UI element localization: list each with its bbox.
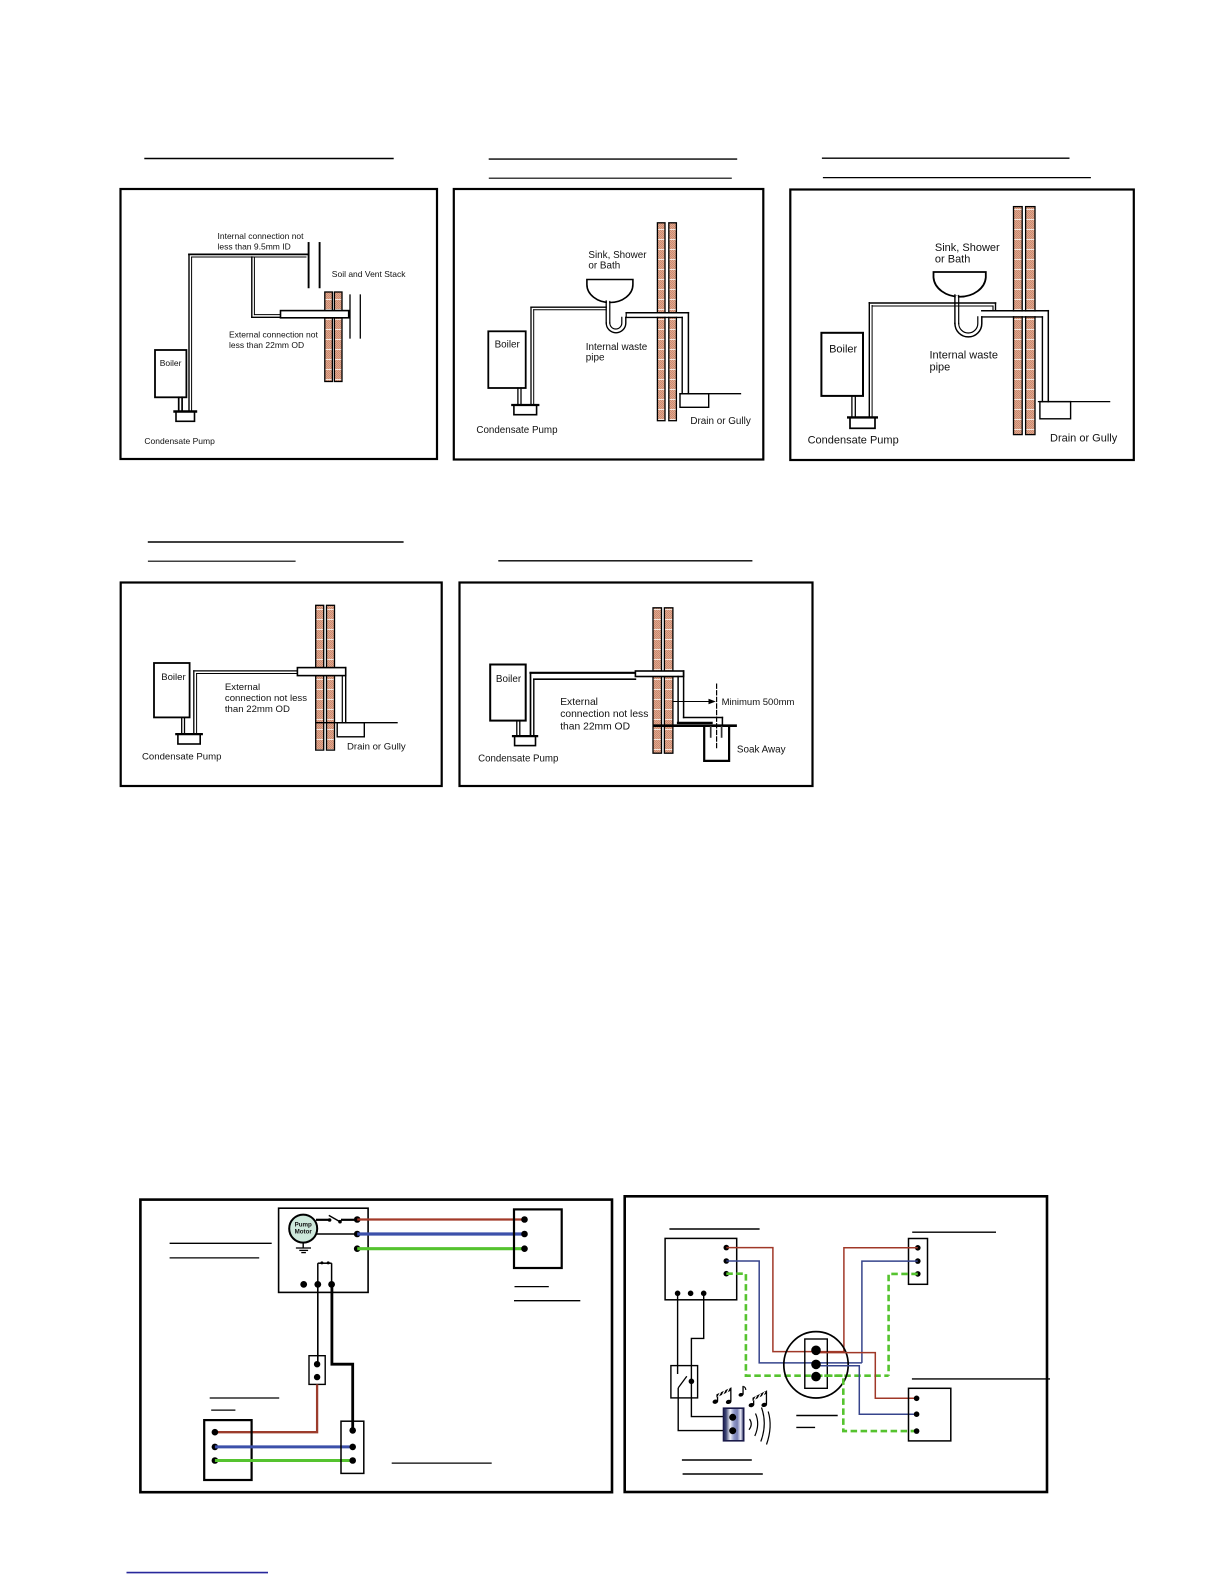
earth wire (green) <box>357 1247 524 1250</box>
wire switch to buzzer bottom <box>678 1388 731 1431</box>
condensate pump unit <box>850 417 875 428</box>
label line buzzer 2 <box>683 1473 763 1475</box>
terminal E <box>354 1245 361 1252</box>
diagram 1 border frame <box>121 189 438 459</box>
label line buzzer 1 <box>682 1459 752 1461</box>
svg-text:Condensate Pump: Condensate Pump <box>478 753 558 764</box>
label line supply top right <box>912 1231 996 1233</box>
wiring diagram 2 border frame <box>625 1196 1047 1492</box>
pump unit bottom terminals <box>675 1291 681 1297</box>
junction terminals <box>811 1346 821 1356</box>
float switch terminal box (bottom left) <box>204 1420 251 1480</box>
svg-text:Condensate Pump: Condensate Pump <box>142 751 221 762</box>
sink drain tube / trap left <box>607 300 609 303</box>
diagram 5 border frame <box>460 583 813 787</box>
external connection pipe 22mm through wall <box>281 311 349 318</box>
pump motor M1 <box>289 1215 317 1243</box>
P trap (double line U) <box>955 317 982 337</box>
wiring diagram 1 border frame <box>140 1200 612 1493</box>
terminal N <box>354 1231 361 1238</box>
ground line (heavy) <box>655 724 736 727</box>
svg-text:Internal connection not: Internal connection not <box>218 231 305 241</box>
condensate pump unit <box>514 405 537 415</box>
boiler B1 <box>155 350 186 397</box>
float switch wire A (thin black) <box>317 1284 319 1361</box>
float switch wire left (black) <box>677 1293 679 1374</box>
alarm terminals <box>914 1396 920 1402</box>
title underline 1 <box>489 158 736 160</box>
ground line <box>316 722 397 724</box>
svg-text:Drain or Gully: Drain or Gully <box>1050 433 1118 445</box>
junction circle <box>784 1332 848 1398</box>
condensate discharge pipe (horizontal) <box>194 670 298 672</box>
inline connector block <box>309 1356 325 1385</box>
condensate discharge pipe (horizontal, heavy) <box>531 672 636 674</box>
svg-text:pipe: pipe <box>586 352 605 363</box>
svg-text:External: External <box>225 682 260 693</box>
wire motor to neutral terminal <box>317 1233 356 1235</box>
boiler outlet pipe <box>851 396 853 418</box>
drop pipe to external connection <box>251 257 253 317</box>
live wire junction to alarm box (red) <box>816 1353 917 1399</box>
svg-text:Soil and Vent Stack: Soil and Vent Stack <box>332 269 406 279</box>
condensate pump unit <box>515 736 536 746</box>
external 22mm pipe through wall <box>635 671 683 677</box>
supply terminals <box>915 1245 921 1251</box>
beamed note pair left <box>712 1399 718 1405</box>
soil and vent stack upper bars <box>308 243 310 287</box>
svg-text:than 22mm OD: than 22mm OD <box>225 704 290 715</box>
drain gully box <box>680 394 709 408</box>
boiler outlet pipe <box>516 721 518 737</box>
terminal dots bottom left box <box>212 1429 219 1436</box>
float switch wire B (thick black) <box>332 1284 353 1430</box>
svg-text:Pump: Pump <box>295 1222 312 1229</box>
neutral wire pump to junction (blue) <box>726 1261 862 1363</box>
label line pump left 1 <box>170 1242 272 1244</box>
svg-text:Drain or Gully: Drain or Gully <box>690 416 750 427</box>
svg-text:pipe: pipe <box>930 361 951 373</box>
riser pipe <box>868 303 870 418</box>
buzzer (sounder) <box>724 1408 744 1441</box>
svg-text:less than 22mm OD: less than 22mm OD <box>229 340 304 350</box>
svg-text:or Bath: or Bath <box>935 254 970 266</box>
switched live wire (dark red) <box>215 1384 317 1432</box>
svg-text:External connection not: External connection not <box>229 330 318 340</box>
title underline 2 <box>149 560 296 562</box>
sink basin <box>934 272 986 297</box>
pump unit enclosure box <box>279 1208 369 1292</box>
svg-text:Condensate Pump: Condensate Pump <box>476 425 558 436</box>
condensate discharge pipe (horizontal) <box>531 306 606 308</box>
label line junction 2 <box>796 1426 815 1428</box>
svg-text:Condensate Pump: Condensate Pump <box>808 434 899 446</box>
pump unit box (top left) <box>665 1238 737 1299</box>
terminal dots bottom middle box <box>349 1427 356 1434</box>
title underline 1 <box>823 157 1069 159</box>
live wire pump to junction (red) <box>726 1248 844 1352</box>
boiler outlet pipe <box>181 717 183 734</box>
boiler B5 <box>490 665 526 721</box>
ground line <box>1039 401 1110 403</box>
float switch link bracket <box>317 1263 319 1284</box>
waste pipe drop outside wall <box>1047 311 1049 402</box>
supply terminal box (right) <box>514 1209 562 1268</box>
svg-text:Boiler: Boiler <box>161 672 186 683</box>
label line supply 2 <box>514 1300 580 1302</box>
neutral wire junction to alarm box (blue) <box>816 1366 917 1415</box>
label line alarm box <box>912 1378 1050 1380</box>
svg-text:Condensate Pump: Condensate Pump <box>144 436 215 446</box>
boiler outlet pipe <box>178 397 180 411</box>
svg-text:Boiler: Boiler <box>829 343 857 355</box>
live wire supply to junction (red) <box>844 1248 918 1352</box>
condensate pump unit <box>178 734 200 744</box>
ground line <box>680 393 741 395</box>
waste pipe drop outside wall <box>687 313 689 394</box>
junction terminal box (bottom middle) <box>341 1421 364 1473</box>
svg-text:connection not less: connection not less <box>225 693 307 704</box>
external 22mm pipe through wall <box>297 668 345 676</box>
float switch wire right with jog (black) <box>691 1293 703 1381</box>
stub joining waste pipe <box>995 303 997 311</box>
switch S1 (thermal cutout) <box>328 1218 332 1222</box>
sink drain tube / trap left <box>956 296 958 300</box>
riser pipe from condensate pump (vertical double line) <box>188 254 190 411</box>
live wire (red) <box>357 1218 524 1220</box>
wall (brick cavity) <box>1014 207 1036 435</box>
sound waves <box>749 1419 751 1430</box>
earth wire pump to junction (green dashed) <box>726 1274 888 1376</box>
wire switch to live terminal <box>341 1219 356 1221</box>
drain gully box <box>337 723 364 737</box>
svg-text:Internal waste: Internal waste <box>586 342 648 353</box>
svg-text:connection not less: connection not less <box>560 709 648 720</box>
wall (brick cavity) <box>653 608 673 753</box>
label line pump left 2 <box>170 1257 260 1259</box>
ground symbol <box>302 1243 304 1248</box>
terminal dots supply box <box>521 1216 528 1223</box>
wall (brick cavity) <box>325 292 342 382</box>
neutral wire supply to junction (blue) <box>862 1261 918 1363</box>
svg-text:less than 9.5mm ID: less than 9.5mm ID <box>218 242 291 252</box>
riser pipe <box>193 671 195 734</box>
riser pipe <box>530 307 532 405</box>
label line connector 1 <box>210 1397 280 1399</box>
svg-text:Motor: Motor <box>295 1229 313 1236</box>
diagram 2 border frame <box>454 189 764 460</box>
svg-text:Soak Away: Soak Away <box>737 745 786 756</box>
terminal L <box>354 1216 361 1223</box>
boiler B4 <box>154 663 190 717</box>
elbow into soak away <box>684 717 723 719</box>
hyperlink underline at page bottom <box>127 1572 269 1574</box>
waste pipe from trap through wall <box>650 314 688 317</box>
soak away pit <box>704 726 729 761</box>
drop pipe outside wall <box>345 668 347 723</box>
arrow minimum 500mm <box>673 701 712 703</box>
svg-text:Boiler: Boiler <box>496 674 522 685</box>
internal connection pipe (horizontal double line) <box>189 253 309 255</box>
label line junction 1 <box>796 1415 837 1417</box>
label line pump unit top <box>669 1228 759 1230</box>
wire motor to switch <box>316 1219 329 1221</box>
drain gully box <box>1040 402 1071 419</box>
title underline 1 <box>149 541 403 543</box>
drop pipe outside wall <box>683 671 685 718</box>
svg-text:Boiler: Boiler <box>160 358 182 368</box>
svg-text:Drain or Gully: Drain or Gully <box>347 742 406 753</box>
svg-text:Boiler: Boiler <box>495 339 521 350</box>
earth wire supply to junction (green dashed) <box>889 1274 918 1376</box>
sink basin <box>587 280 633 303</box>
neutral wire (blue) <box>357 1232 524 1235</box>
junction terminal strip <box>805 1339 828 1388</box>
boiler B3 <box>821 333 863 396</box>
svg-text:Sink, Shower: Sink, Shower <box>935 242 1000 254</box>
earth wire bottom (green) <box>215 1459 353 1462</box>
svg-text:Internal waste: Internal waste <box>930 349 998 361</box>
supply terminal box (top right) <box>909 1239 928 1285</box>
wire switch to buzzer top <box>691 1381 731 1416</box>
waste pipe from trap through wall <box>1005 312 1048 317</box>
pump terminal dots <box>300 1281 307 1288</box>
alarm terminal box (bottom right) <box>909 1388 951 1441</box>
beamed note pair right <box>748 1402 754 1408</box>
title underline 2 <box>489 177 731 179</box>
music notes <box>712 1386 767 1408</box>
svg-text:External: External <box>560 697 598 708</box>
title underline <box>499 560 752 562</box>
boiler B2 <box>488 331 525 388</box>
label line connector 2 <box>211 1409 235 1411</box>
switch blade <box>678 1376 687 1388</box>
riser pipe (heavy) <box>530 673 532 736</box>
wall (brick cavity) <box>316 605 335 750</box>
svg-text:Sink, Shower: Sink, Shower <box>588 250 647 261</box>
soil and vent stack lower bars <box>349 295 351 338</box>
title underline 2 <box>824 177 1091 179</box>
svg-text:or Bath: or Bath <box>588 261 620 272</box>
single eighth note <box>738 1392 744 1397</box>
diagram 3 border frame <box>790 190 1134 461</box>
label line supply 1 <box>515 1286 549 1288</box>
pump unit side terminals <box>724 1245 730 1251</box>
neutral wire bottom (blue) <box>215 1445 353 1448</box>
boiler outlet pipe <box>517 388 519 405</box>
title underline 1 <box>145 158 393 160</box>
wall (brick cavity) <box>657 223 676 421</box>
svg-text:than 22mm OD: than 22mm OD <box>560 721 630 732</box>
diagram 4 border frame <box>121 583 442 787</box>
P trap (double line U) <box>606 317 626 332</box>
dashed pipe stubs below ground <box>710 727 712 737</box>
condensate discharge pipe (horizontal) <box>869 302 995 304</box>
earth wire junction to alarm box (green dashed) <box>816 1376 917 1431</box>
svg-text:Minimum 500mm: Minimum 500mm <box>722 697 795 708</box>
float switch box <box>671 1366 698 1398</box>
condensate pump unit <box>176 412 195 422</box>
minimum 500mm dashed datum line <box>716 684 718 750</box>
label line bottom right <box>392 1462 492 1464</box>
